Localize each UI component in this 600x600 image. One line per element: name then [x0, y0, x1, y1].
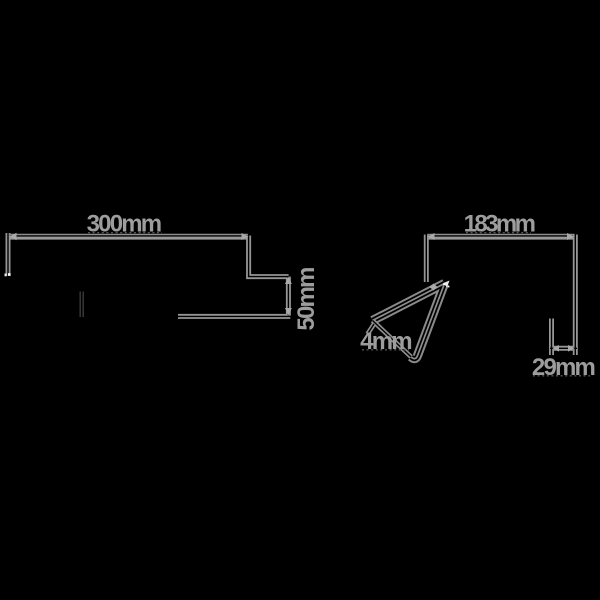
svg-text:183mm: 183mm	[464, 211, 535, 238]
svg-text:300mm: 300mm	[87, 211, 161, 238]
svg-text:50mm: 50mm	[293, 268, 320, 331]
svg-text:29mm: 29mm	[532, 354, 595, 381]
svg-text:4mm: 4mm	[360, 328, 411, 355]
